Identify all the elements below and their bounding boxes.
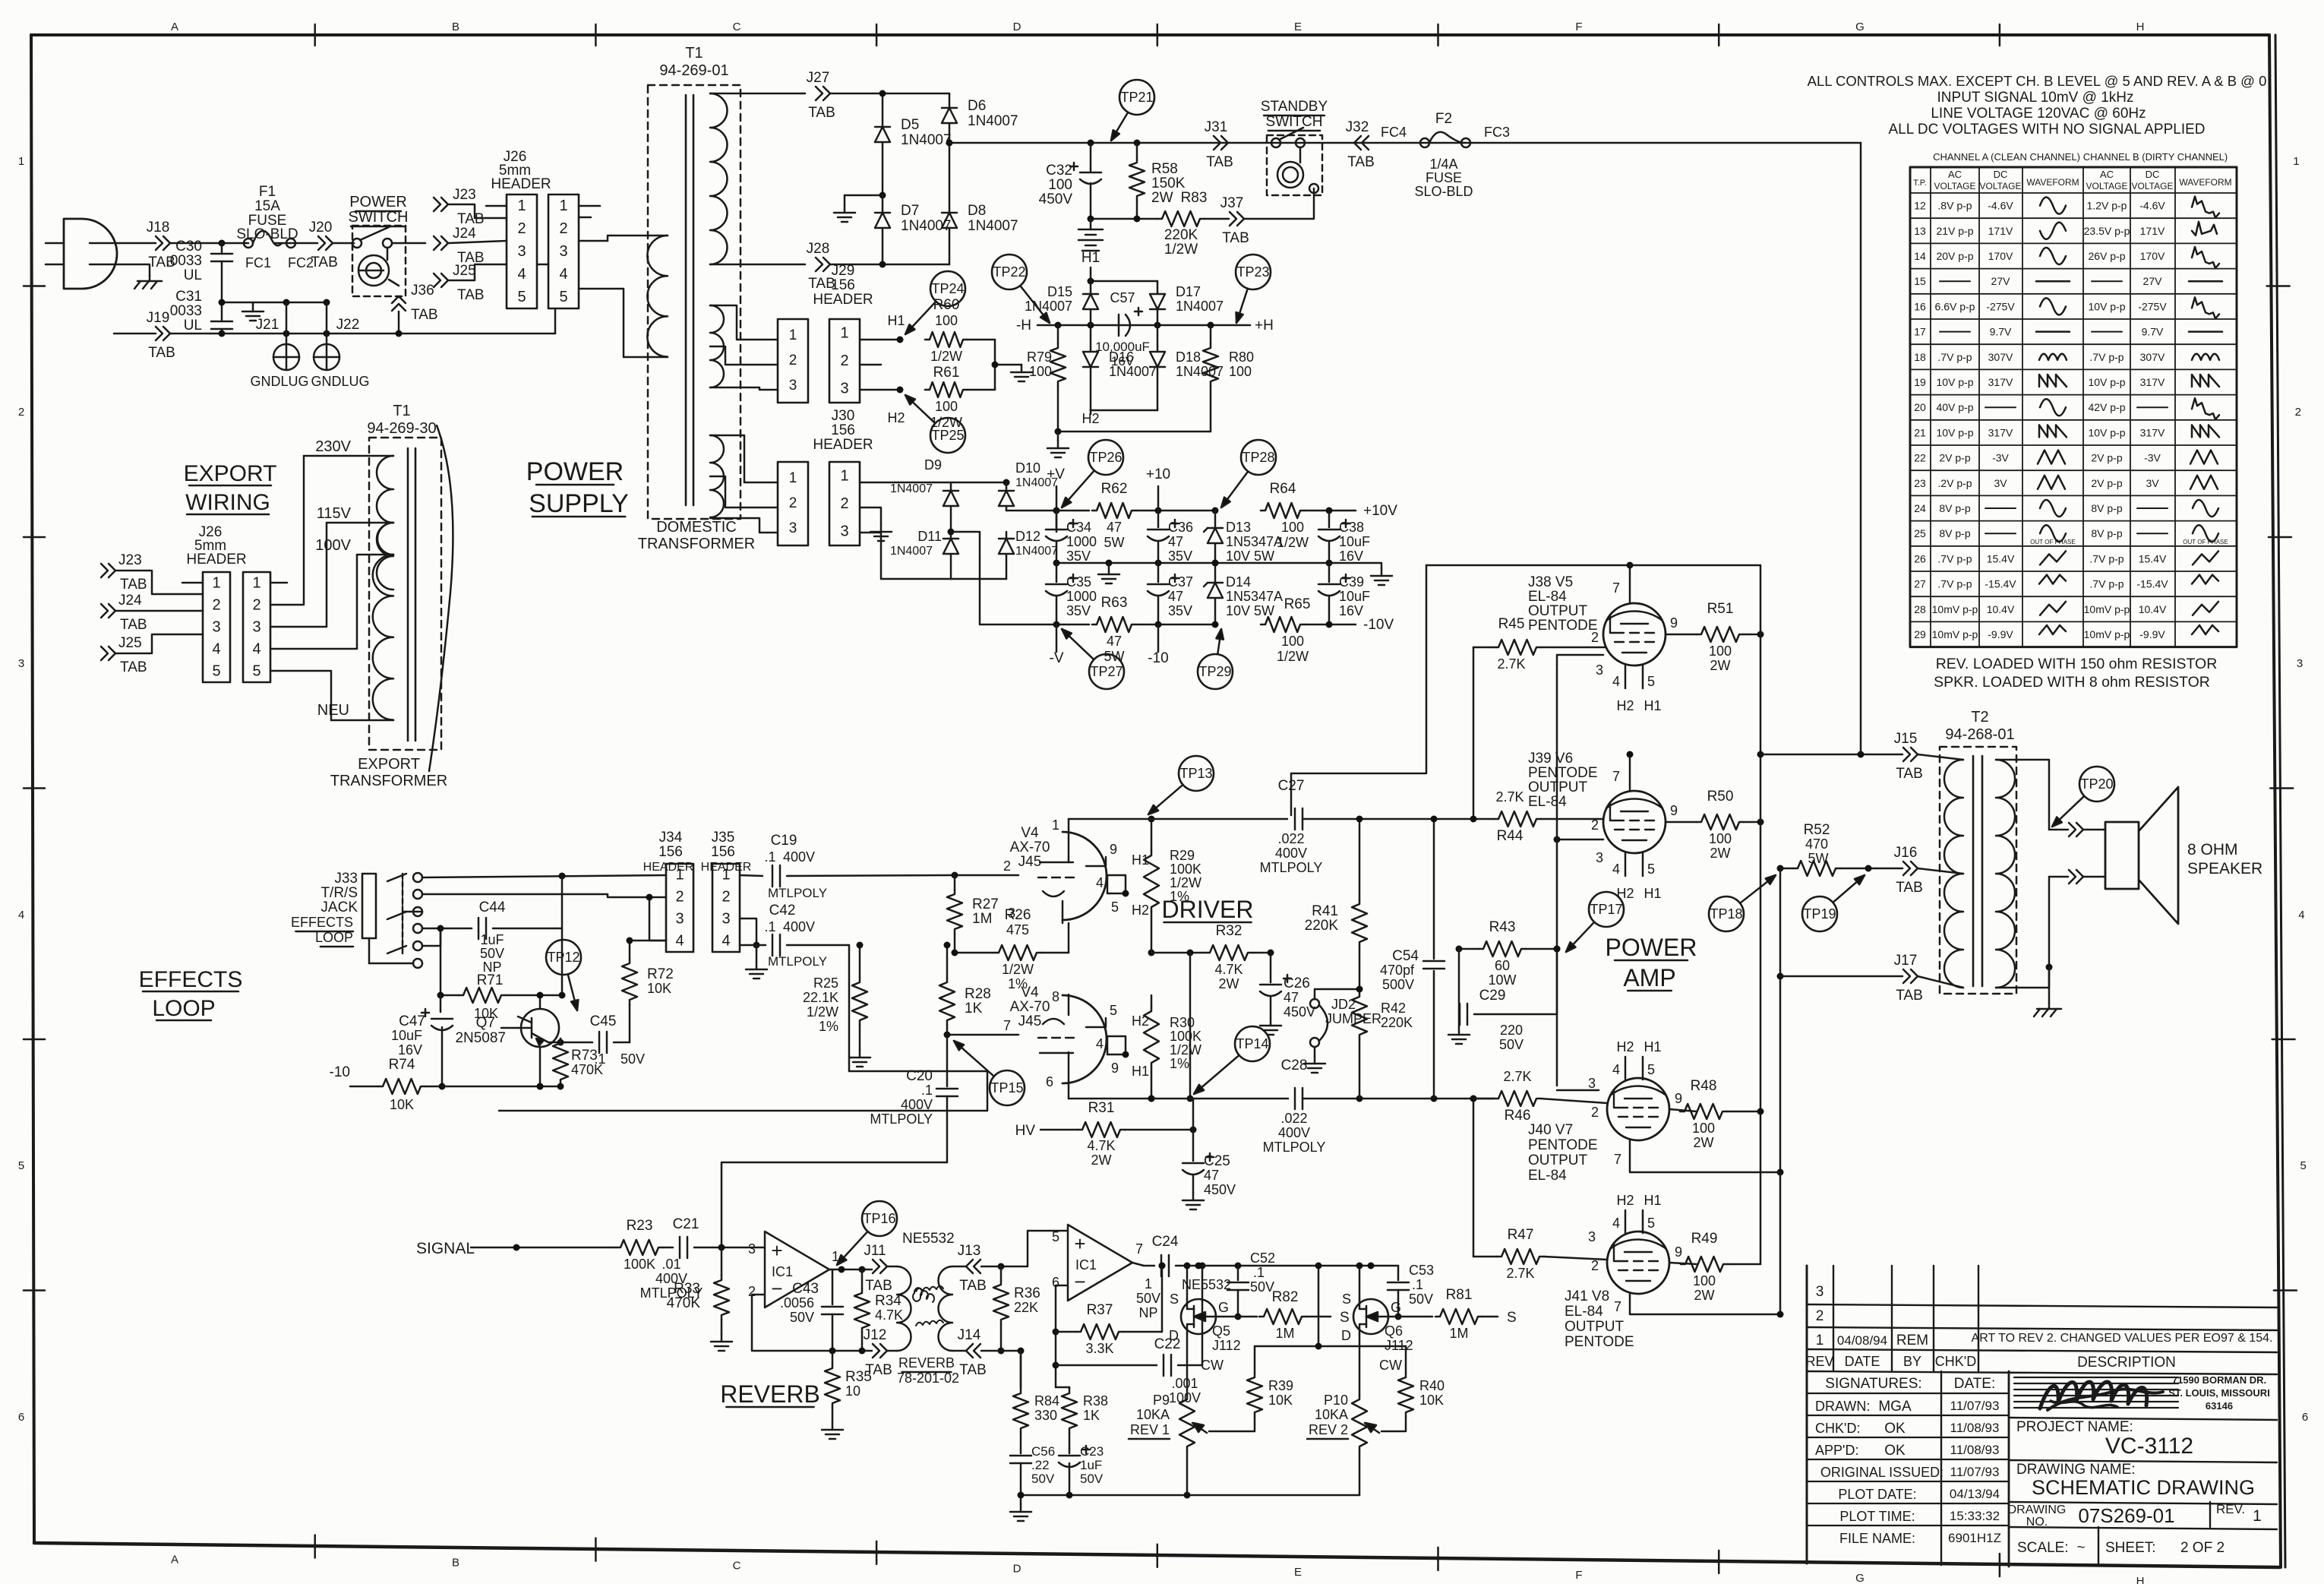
svg-text:VOLTAGE: VOLTAGE	[1980, 181, 2022, 191]
svg-text:C45: C45	[590, 1013, 617, 1029]
svg-text:REV: REV	[1805, 1354, 1833, 1369]
svg-text:4: 4	[212, 641, 220, 658]
transformer T2 core	[1973, 756, 1982, 986]
diode D8	[942, 140, 1018, 265]
svg-text:42V p-p: 42V p-p	[2088, 401, 2125, 413]
svg-text:4.7K: 4.7K	[1214, 962, 1243, 977]
svg-text:10K: 10K	[390, 1097, 414, 1112]
svg-text:TP14: TP14	[1236, 1036, 1268, 1051]
svg-text:C57: C57	[1110, 290, 1135, 305]
svg-text:S: S	[1507, 1310, 1517, 1326]
section label power amp	[1606, 934, 1697, 991]
svg-text:UL: UL	[184, 267, 202, 283]
resistor R84	[1013, 1351, 1059, 1433]
svg-text:47: 47	[1107, 634, 1122, 649]
resistor R41	[1305, 816, 1367, 990]
svg-text:3: 3	[1588, 1229, 1596, 1244]
svg-text:D9: D9	[924, 457, 942, 473]
diode D16	[1083, 325, 1157, 410]
test point TP14	[1194, 1026, 1270, 1094]
svg-text:2: 2	[1591, 1258, 1599, 1273]
svg-text:H2: H2	[1616, 1039, 1634, 1054]
svg-text:CW: CW	[1201, 1358, 1224, 1373]
gnd lug J22	[311, 302, 369, 389]
svg-text:IC1: IC1	[1075, 1257, 1097, 1273]
svg-text:1/2W: 1/2W	[1002, 962, 1034, 977]
ground earth input	[242, 302, 264, 321]
export transformer box	[369, 438, 441, 750]
svg-text:R33: R33	[674, 1281, 700, 1297]
svg-text:5: 5	[559, 289, 567, 305]
sheet cell	[2105, 1540, 2225, 1556]
svg-text:HEADER: HEADER	[491, 176, 551, 192]
R26 value	[1006, 922, 1029, 937]
svg-text:2.7K: 2.7K	[1506, 1266, 1534, 1281]
svg-text:H1: H1	[1644, 698, 1661, 713]
svg-text:D11: D11	[917, 529, 942, 544]
svg-text:.1: .1	[921, 1083, 933, 1098]
speaker label	[2187, 841, 2262, 877]
diode D18	[1150, 325, 1224, 410]
wire plug neutral	[90, 264, 150, 275]
resistor R52	[1777, 822, 1877, 876]
svg-text:1/2W: 1/2W	[1277, 649, 1309, 664]
wire Q6 drain	[1359, 1334, 1361, 1395]
svg-text:6: 6	[1046, 1074, 1053, 1089]
svg-text:LOOP: LOOP	[152, 996, 215, 1021]
svg-text:2: 2	[2295, 406, 2301, 419]
test point TP23	[1236, 255, 1271, 323]
svg-text:OUT OF PHASE: OUT OF PHASE	[2030, 539, 2075, 545]
svg-text:C52: C52	[1250, 1250, 1275, 1266]
svg-text:-4.6V: -4.6V	[1988, 200, 2013, 212]
svg-text:H2: H2	[887, 410, 905, 425]
svg-text:HEADER: HEADER	[813, 437, 873, 453]
tube V4a heater	[1086, 842, 1149, 918]
svg-text:170V: 170V	[2140, 250, 2165, 262]
note spkr loaded	[1934, 674, 2210, 691]
svg-text:TP12: TP12	[547, 950, 579, 965]
fuse F2	[1381, 111, 1510, 199]
resistor R45	[1473, 616, 1605, 672]
svg-text:2.7K: 2.7K	[1495, 789, 1524, 805]
speaker tab top	[2049, 823, 2105, 836]
resistor R74	[330, 1057, 446, 1112]
svg-text:47: 47	[1168, 589, 1183, 604]
svg-text:DC: DC	[1994, 169, 2008, 180]
tube V8	[1607, 1231, 1669, 1294]
svg-text:R79: R79	[1027, 349, 1052, 365]
ground C39	[1329, 563, 1392, 585]
svg-text:H2: H2	[1132, 903, 1149, 918]
header small box 2	[778, 462, 808, 545]
svg-text:8 OHM: 8 OHM	[2187, 841, 2238, 858]
svg-text:EL-84: EL-84	[1528, 1168, 1567, 1184]
svg-text:1K: 1K	[965, 1001, 983, 1016]
signatures header	[1825, 1376, 1995, 1392]
svg-text:-10: -10	[330, 1064, 350, 1080]
svg-text:7: 7	[1135, 1241, 1143, 1257]
capacitor C52	[1227, 1250, 1275, 1320]
svg-text:100: 100	[1281, 634, 1304, 649]
svg-text:2W: 2W	[1694, 1288, 1715, 1303]
svg-text:OUTPUT: OUTPUT	[1528, 603, 1588, 619]
svg-text:SCHEMATIC DRAWING: SCHEMATIC DRAWING	[2032, 1476, 2255, 1499]
svg-text:EFFECTS: EFFECTS	[291, 915, 353, 930]
transistor Q5	[1169, 1292, 1241, 1353]
svg-text:11/08/93: 11/08/93	[1950, 1443, 2000, 1457]
resistor R79	[1027, 325, 1066, 432]
svg-text:07S269-01: 07S269-01	[2078, 1504, 2174, 1527]
svg-text:50V: 50V	[480, 946, 504, 961]
opamp IC1a	[748, 1231, 955, 1307]
wire HV bus down	[1860, 143, 1862, 754]
svg-text:FC4: FC4	[1381, 125, 1407, 140]
export J26 label	[186, 524, 246, 568]
svg-text:10K: 10K	[1419, 1393, 1444, 1408]
svg-text:FC1: FC1	[245, 255, 271, 270]
reverb tank coil right	[939, 1266, 967, 1351]
label H1 J29	[887, 313, 905, 328]
svg-text:1%: 1%	[819, 1019, 838, 1034]
svg-text:10K: 10K	[647, 981, 671, 996]
export transformer label	[330, 756, 447, 789]
svg-text:2V p-p: 2V p-p	[2091, 452, 2122, 464]
wire signal	[471, 1244, 616, 1251]
svg-text:7: 7	[1003, 1018, 1011, 1033]
svg-text:1: 1	[840, 324, 848, 341]
svg-text:R43: R43	[1489, 919, 1516, 935]
resistor R43	[1456, 919, 1561, 988]
standby contacts	[1271, 128, 1305, 147]
connector J13	[958, 1243, 987, 1294]
T1 secondary coil 3	[710, 435, 778, 533]
svg-text:C30: C30	[175, 239, 202, 255]
svg-text:D13: D13	[1226, 520, 1251, 535]
svg-text:1/2W: 1/2W	[1164, 242, 1198, 258]
svg-text:MGA: MGA	[1878, 1399, 1912, 1415]
svg-text:H1: H1	[1132, 852, 1149, 868]
wire J30 pin2	[860, 507, 881, 524]
svg-text:.7V p-p: .7V p-p	[1937, 552, 1972, 564]
svg-text:R62: R62	[1101, 481, 1128, 497]
resistor R31	[1015, 1100, 1197, 1168]
svg-text:+10: +10	[1146, 466, 1170, 482]
svg-text:6: 6	[18, 1411, 24, 1424]
svg-text:C53: C53	[1409, 1263, 1434, 1278]
svg-text:10uF: 10uF	[1339, 589, 1370, 604]
ground JD2	[1304, 1047, 1325, 1073]
svg-text:1%: 1%	[1170, 889, 1189, 904]
svg-text:OUT OF PHASE: OUT OF PHASE	[2183, 539, 2228, 545]
svg-text:CHK'D: CHK'D	[1935, 1354, 1976, 1369]
fuse F1 label slo-bld	[236, 226, 298, 242]
ground R25	[849, 1050, 870, 1067]
svg-text:R74: R74	[389, 1057, 415, 1073]
svg-text:.001: .001	[1171, 1376, 1198, 1391]
svg-text:230V: 230V	[315, 438, 351, 455]
svg-text:-15.4V: -15.4V	[2136, 578, 2168, 590]
resistor R72	[622, 941, 674, 1042]
svg-text:1N4007: 1N4007	[890, 482, 933, 495]
svg-text:D: D	[1169, 1328, 1179, 1343]
svg-text:78-201-02: 78-201-02	[897, 1371, 959, 1386]
svg-text:-H: -H	[1016, 318, 1031, 334]
file name row	[1839, 1531, 2001, 1546]
export coil 100-neu	[373, 555, 393, 720]
svg-text:SLO-BLD: SLO-BLD	[1414, 184, 1473, 199]
svg-text:04/08/94: 04/08/94	[1837, 1333, 1887, 1348]
test point TP24	[905, 271, 965, 334]
wire J29 pin1	[860, 337, 904, 343]
capacitor C57	[1095, 290, 1150, 368]
svg-text:3: 3	[722, 911, 730, 928]
connector J17	[1780, 953, 1923, 1004]
svg-text:1: 1	[2253, 1507, 2262, 1525]
resistor R80	[1203, 325, 1254, 432]
svg-text:35V: 35V	[1168, 549, 1192, 564]
tube V4b	[1038, 995, 1107, 1083]
svg-text:R42: R42	[1381, 1001, 1406, 1016]
svg-text:C21: C21	[673, 1216, 699, 1232]
svg-text:+: +	[1074, 1232, 1085, 1255]
diode D12	[999, 529, 1058, 579]
svg-text:.1: .1	[764, 849, 775, 865]
drawing name value	[2032, 1476, 2255, 1499]
svg-text:47: 47	[1204, 1168, 1219, 1183]
svg-text:1: 1	[789, 327, 797, 343]
svg-text:S: S	[1342, 1292, 1351, 1307]
svg-text:REVERB: REVERB	[898, 1355, 955, 1371]
svg-text:R72: R72	[647, 966, 674, 982]
svg-text:J33: J33	[334, 871, 358, 887]
svg-text:4.7K: 4.7K	[875, 1307, 903, 1323]
svg-text:Q6: Q6	[1385, 1323, 1403, 1339]
svg-text:10.4V: 10.4V	[2139, 603, 2167, 615]
svg-text:1: 1	[212, 575, 220, 592]
svg-text:1: 1	[18, 155, 24, 168]
svg-text:10mV p-p: 10mV p-p	[1932, 628, 1978, 640]
connector J32	[1346, 119, 1375, 170]
svg-text:2: 2	[1591, 630, 1599, 645]
wire J34 pin2 link	[646, 894, 667, 941]
label signal	[416, 1240, 475, 1257]
svg-text:100: 100	[1693, 1273, 1716, 1288]
test point TP21	[1111, 80, 1154, 141]
svg-text:.01: .01	[662, 1257, 680, 1272]
svg-text:3V: 3V	[1994, 477, 2007, 489]
resistor R81	[1435, 1287, 1517, 1341]
resistor R23	[616, 1218, 663, 1272]
capacitor C47	[391, 995, 453, 1086]
tube V7 pins	[1588, 1039, 1780, 1172]
jack J33 body	[362, 874, 376, 938]
svg-text:+V: +V	[1047, 466, 1065, 482]
note input signal	[1937, 90, 2134, 106]
capacitor C28	[1263, 1058, 1494, 1155]
svg-text:3V: 3V	[2146, 477, 2159, 489]
svg-text:2W: 2W	[1710, 658, 1731, 673]
svg-text:VOLTAGE: VOLTAGE	[2132, 181, 2174, 191]
svg-text:15:33:32: 15:33:32	[1950, 1509, 2000, 1523]
capacitor C25	[1183, 1099, 1236, 1197]
ground mid rail	[1098, 563, 1119, 583]
svg-text:CHANNEL A (CLEAN CHANNEL): CHANNEL A (CLEAN CHANNEL)	[1933, 151, 2080, 163]
section label export wiring	[184, 461, 277, 515]
svg-text:J31: J31	[1205, 119, 1228, 135]
svg-text:H: H	[2136, 21, 2145, 33]
speaker tab bottom	[2049, 870, 2105, 884]
wire neutral	[114, 333, 156, 335]
svg-text:15.4V: 15.4V	[2139, 552, 2167, 564]
svg-text:TRANSFORMER: TRANSFORMER	[330, 773, 447, 789]
svg-text:+10V: +10V	[1363, 503, 1397, 519]
diode D17	[1150, 281, 1224, 325]
wire V6 cathode	[1554, 836, 1604, 843]
svg-text:D: D	[1341, 1328, 1351, 1343]
svg-text:6: 6	[2302, 1411, 2308, 1424]
svg-text:50V: 50V	[790, 1310, 814, 1325]
svg-text:SWITCH: SWITCH	[349, 209, 409, 226]
svg-text:2: 2	[722, 889, 730, 906]
svg-text:TP19: TP19	[1803, 906, 1836, 922]
svg-text:TP13: TP13	[1179, 766, 1212, 781]
svg-text:TP20: TP20	[2080, 776, 2113, 792]
wire plate top	[1069, 818, 1287, 820]
svg-text:450V: 450V	[1039, 191, 1073, 207]
svg-text:R46: R46	[1505, 1108, 1531, 1124]
header J26 B	[548, 194, 579, 308]
export J25	[101, 634, 203, 675]
wire Q5 gate	[1216, 1316, 1257, 1318]
capacitor C54	[1380, 816, 1445, 1099]
svg-text:AC: AC	[2100, 169, 2114, 180]
svg-text:TP15: TP15	[990, 1080, 1023, 1096]
svg-text:3: 3	[748, 1241, 756, 1257]
svg-text:4: 4	[1612, 1062, 1620, 1077]
section label effects loop	[139, 967, 243, 1021]
svg-text:1/2W: 1/2W	[1170, 875, 1201, 890]
svg-text:29: 29	[1914, 628, 1926, 640]
reverb tank springs	[913, 1286, 943, 1326]
svg-text:R36: R36	[1014, 1285, 1040, 1301]
tube V5	[1603, 603, 1666, 666]
svg-text:C54: C54	[1392, 948, 1419, 964]
svg-text:TAB: TAB	[120, 617, 147, 633]
svg-text:4: 4	[1612, 674, 1620, 689]
svg-text:1N4007: 1N4007	[968, 218, 1018, 234]
svg-text:2 OF 2: 2 OF 2	[2180, 1540, 2225, 1556]
svg-text:-15.4V: -15.4V	[1985, 578, 2016, 590]
svg-text:TAB: TAB	[411, 307, 438, 323]
svg-text:H1: H1	[1644, 1193, 1661, 1208]
svg-text:10KA: 10KA	[1136, 1407, 1170, 1422]
transistor Q6	[1341, 1292, 1413, 1353]
tap 100V	[315, 537, 393, 555]
standby switch box	[1261, 99, 1328, 195]
jack switch arms	[369, 874, 413, 963]
svg-text:J37: J37	[1220, 195, 1244, 211]
connector J24	[434, 226, 485, 266]
svg-text:307V: 307V	[1988, 351, 2013, 363]
svg-text:9.7V: 9.7V	[2142, 326, 2164, 338]
wire Q7 collector	[537, 1047, 544, 1090]
svg-text:TAB: TAB	[808, 105, 835, 121]
appd row	[1815, 1443, 1999, 1459]
svg-text:3: 3	[18, 657, 24, 670]
svg-text:15.4V: 15.4V	[1987, 552, 2015, 564]
svg-text:VC-3112: VC-3112	[2105, 1434, 2193, 1459]
resistor R38	[1056, 1387, 1108, 1449]
svg-text:2: 2	[840, 495, 848, 512]
test point TP20	[2052, 767, 2114, 827]
svg-text:14: 14	[1914, 250, 1926, 262]
svg-text:R73: R73	[571, 1048, 598, 1064]
resistor R64	[1261, 481, 1309, 550]
svg-text:19: 19	[1914, 376, 1926, 388]
svg-text:R28: R28	[965, 986, 991, 1002]
svg-text:CHK'D:: CHK'D:	[1815, 1421, 1860, 1436]
wire plusV	[1056, 510, 1089, 512]
svg-text:24: 24	[1914, 502, 1926, 514]
connector J23	[434, 187, 507, 227]
svg-text:DRAWN:: DRAWN:	[1815, 1399, 1870, 1414]
wire Q6 S	[1356, 1263, 1363, 1300]
svg-text:1K: 1K	[1083, 1408, 1100, 1423]
svg-text:TRANSFORMER: TRANSFORMER	[638, 536, 755, 552]
svg-text:TAB: TAB	[959, 1362, 987, 1378]
resistor R32	[1205, 923, 1271, 991]
wire J35 pin1	[740, 875, 763, 876]
svg-text:5: 5	[1647, 1062, 1655, 1077]
capacitor C23	[1059, 1444, 1104, 1495]
svg-text:500V: 500V	[1382, 977, 1414, 992]
svg-text:475: 475	[1006, 922, 1029, 937]
svg-text:PLOT TIME:: PLOT TIME:	[1839, 1509, 1915, 1524]
T2 secondary coil	[1996, 760, 2015, 988]
svg-text:C35: C35	[1066, 574, 1091, 590]
svg-text:TP18: TP18	[1710, 906, 1742, 922]
svg-text:100: 100	[1029, 364, 1052, 379]
svg-text:POWER: POWER	[1606, 934, 1697, 961]
svg-text:ALL DC VOLTAGES WITH NO SIGNAL: ALL DC VOLTAGES WITH NO SIGNAL APPLIED	[1888, 122, 2205, 138]
wire R62 right	[1136, 507, 1219, 514]
svg-text:6.6V p-p: 6.6V p-p	[1935, 300, 1975, 312]
svg-text:63146: 63146	[2206, 1400, 2233, 1412]
svg-text:JUMPER: JUMPER	[1325, 1011, 1381, 1026]
wire top link	[1291, 565, 1760, 815]
tube V4b label	[1010, 985, 1050, 1029]
svg-text:LINE VOLTAGE 120VAC @ 60Hz: LINE VOLTAGE 120VAC @ 60Hz	[1931, 106, 2146, 122]
svg-text:WAVEFORM: WAVEFORM	[2179, 177, 2231, 188]
svg-text:R61: R61	[933, 365, 960, 381]
reverb tank label	[897, 1355, 959, 1386]
svg-text:4: 4	[675, 933, 684, 950]
svg-text:1N4007: 1N4007	[890, 545, 933, 558]
header small box 1	[778, 319, 808, 403]
svg-text:J36: J36	[411, 283, 434, 299]
svg-text:1uF: 1uF	[1080, 1458, 1102, 1472]
svg-text:4: 4	[559, 266, 567, 283]
test point TP27	[1062, 629, 1124, 689]
svg-text:10V p-p: 10V p-p	[2088, 376, 2125, 388]
diode D5	[875, 90, 952, 196]
pot P10	[1307, 1358, 1402, 1451]
svg-text:1000: 1000	[1066, 534, 1097, 549]
svg-text:R51: R51	[1707, 601, 1734, 617]
svg-text:156: 156	[711, 844, 735, 860]
svg-text:REV 2: REV 2	[1309, 1422, 1348, 1437]
